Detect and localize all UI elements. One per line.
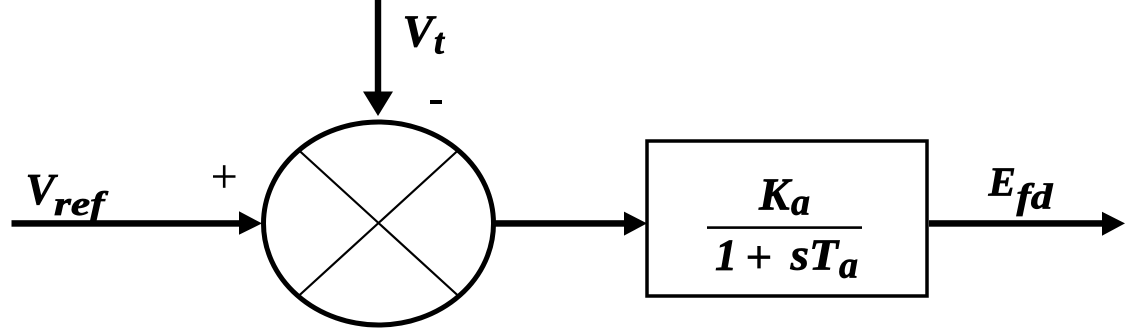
svg-text:t: t — [434, 22, 445, 62]
svg-text:a: a — [791, 182, 810, 224]
svg-text:sT: sT — [789, 230, 840, 279]
svg-text:ref: ref — [54, 186, 109, 223]
svg-text:a: a — [839, 245, 858, 287]
svg-text:V: V — [403, 6, 437, 57]
svg-text:E: E — [988, 159, 1016, 205]
svg-text:1: 1 — [715, 230, 737, 279]
svg-text:K: K — [758, 169, 793, 220]
svg-text:fd: fd — [1017, 177, 1054, 217]
